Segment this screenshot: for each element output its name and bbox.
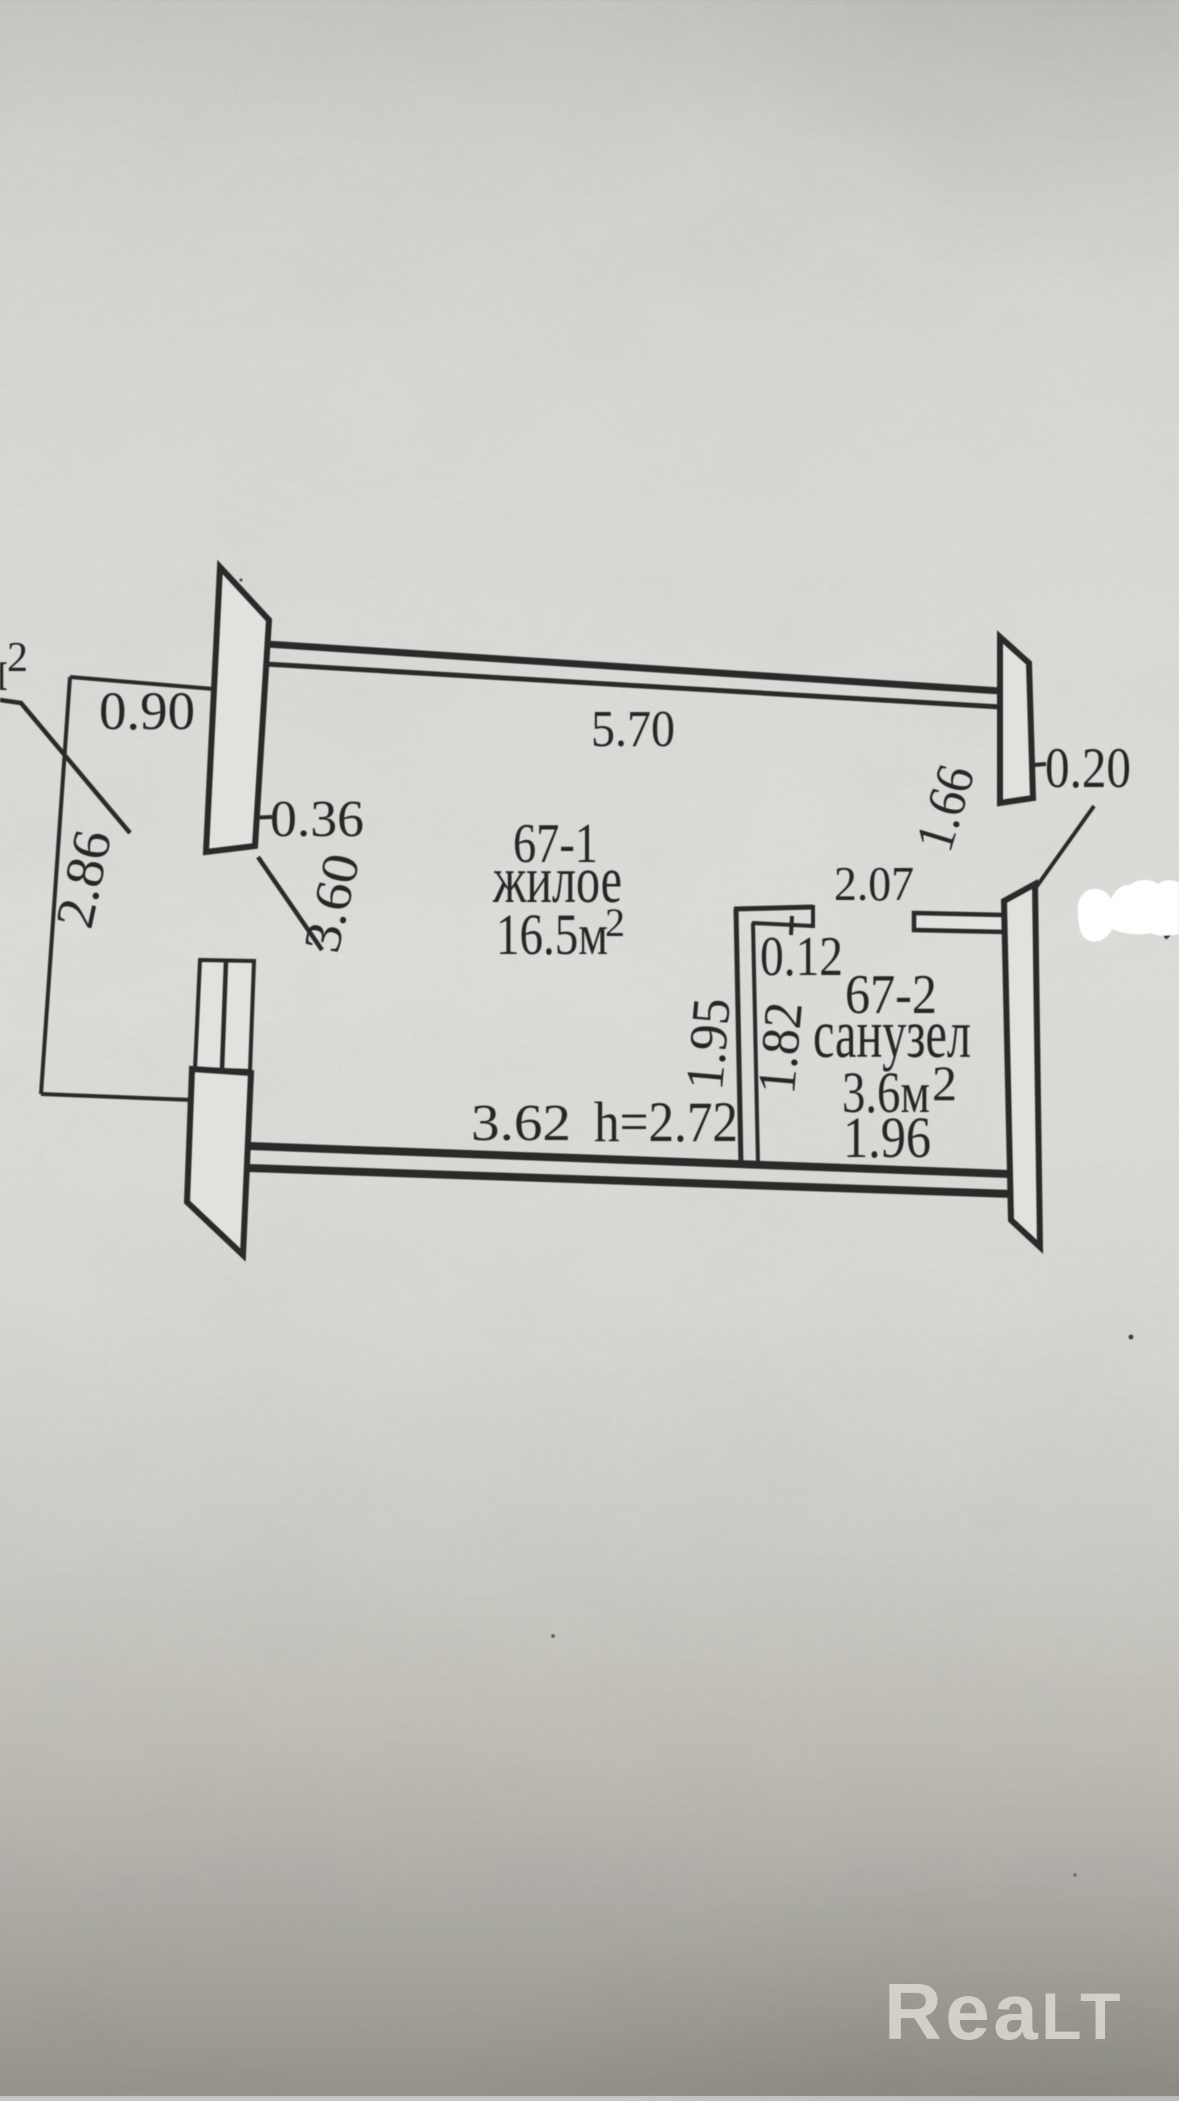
svg-text:0.20: 0.20 [1045,737,1131,800]
wire: bathroom top-left wall end cap [811,905,815,928]
svg-text:2.07: 2.07 [834,856,914,911]
wall: bathroom right wall [1004,884,1040,1247]
wire: bathroom left wall inner line [753,923,758,1164]
node: dust speck 1 [1129,1335,1134,1340]
wire: tick for 0.12 [791,916,792,935]
wall: top-right wall end pier [1000,637,1033,803]
svg-text:3.60: 3.60 [294,848,372,957]
wire: balcony left line [41,677,70,1094]
node: dust speck 3 [239,578,242,581]
wall: lower-left door jamb [187,1069,251,1255]
svg-text:0.90: 0.90 [99,681,195,741]
svg-text:2: 2 [7,635,28,681]
wire: tick for 0.36 [244,817,272,818]
wire: leader line for 2.86 [0,700,130,833]
wire: balcony bottom line [41,1094,193,1100]
wire: tick for 0.20 [1008,764,1046,767]
svg-text:2: 2 [605,900,625,945]
node: dust speck 4 [1073,1873,1076,1876]
wire: leader line for 3.60 [258,857,322,950]
svg-text:0.36: 0.36 [270,791,364,848]
wire: small line fragment near white patch [1165,925,1179,938]
wire: top wall lower line [265,664,1001,707]
wall: bathroom top-right wall segment [914,913,1004,932]
wall: top-left wall pier [206,567,269,852]
wire: top wall upper line [266,644,1001,691]
svg-text:2: 2 [932,1055,957,1111]
svg-text:1.95: 1.95 [674,996,742,1093]
node: REALT watermark [884,1966,1124,2058]
svg-text:16.5м: 16.5м [496,902,608,967]
svg-text:2.86: 2.86 [44,825,123,933]
svg-text:0.12: 0.12 [760,926,843,988]
node: white patch covering watermark [1078,880,1179,941]
wire: balcony top line [70,677,214,689]
svg-text:1.96: 1.96 [843,1105,931,1170]
window: lower-left window divider [222,961,226,1070]
svg-text:1.66: 1.66 [904,758,987,858]
wire: leader line for 0.20 [1032,806,1094,893]
wire: bottom wall upper line [249,1146,1009,1174]
wire: bathroom top-left wall outer line [734,907,813,909]
svg-text:3.62: 3.62 [471,1095,571,1152]
node: dust speck 2 [551,1634,555,1638]
wire: bathroom top-left wall inner line [752,923,813,926]
svg-text:1.82: 1.82 [746,1000,814,1097]
wire: bottom wall lower line [248,1168,1012,1194]
window: lower-left window frame [195,960,254,1071]
svg-text:h=2.72: h=2.72 [594,1091,738,1154]
svg-text:5.70: 5.70 [591,701,675,758]
wire: bathroom left wall outer line [736,909,741,1165]
